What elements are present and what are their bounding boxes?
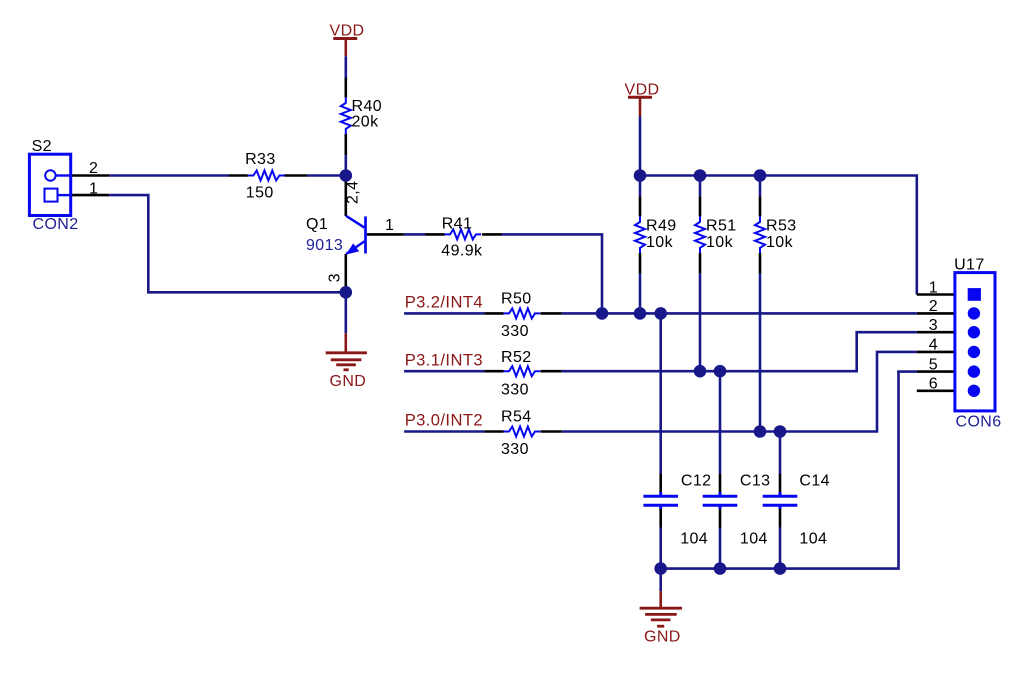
svg-text:GND: GND xyxy=(330,373,367,390)
svg-text:R41: R41 xyxy=(442,216,473,233)
svg-text:R49: R49 xyxy=(646,217,677,234)
svg-text:5: 5 xyxy=(929,356,938,373)
svg-text:1: 1 xyxy=(89,180,98,197)
svg-text:Q1: Q1 xyxy=(306,216,328,233)
svg-text:10k: 10k xyxy=(766,234,794,251)
svg-text:4: 4 xyxy=(929,337,938,354)
svg-text:104: 104 xyxy=(680,531,708,548)
svg-text:R53: R53 xyxy=(766,217,797,234)
svg-text:C12: C12 xyxy=(681,473,712,490)
svg-text:P3.2/INT4: P3.2/INT4 xyxy=(405,292,483,311)
svg-text:20k: 20k xyxy=(352,113,380,130)
svg-text:330: 330 xyxy=(501,441,529,458)
svg-text:R54: R54 xyxy=(501,408,532,425)
svg-text:VDD: VDD xyxy=(330,22,365,39)
svg-text:R52: R52 xyxy=(501,349,532,366)
svg-text:CON6: CON6 xyxy=(956,414,1002,431)
svg-text:2: 2 xyxy=(929,298,938,315)
svg-text:10k: 10k xyxy=(706,234,734,251)
svg-text:9013: 9013 xyxy=(306,237,343,254)
svg-text:104: 104 xyxy=(740,531,768,548)
svg-text:2: 2 xyxy=(89,160,98,177)
svg-text:104: 104 xyxy=(799,531,827,548)
svg-text:C14: C14 xyxy=(799,473,830,490)
svg-text:330: 330 xyxy=(501,381,529,398)
svg-text:10k: 10k xyxy=(646,234,674,251)
svg-text:1: 1 xyxy=(385,217,394,234)
svg-text:P3.0/INT2: P3.0/INT2 xyxy=(405,410,483,429)
svg-text:R40: R40 xyxy=(352,98,383,115)
svg-text:P3.1/INT3: P3.1/INT3 xyxy=(405,351,483,370)
svg-text:2,4: 2,4 xyxy=(345,181,362,204)
svg-text:S2: S2 xyxy=(32,138,52,155)
svg-text:R50: R50 xyxy=(501,290,532,307)
svg-text:CON2: CON2 xyxy=(33,216,79,233)
svg-text:6: 6 xyxy=(929,376,938,393)
svg-text:R51: R51 xyxy=(706,217,737,234)
svg-text:1: 1 xyxy=(929,279,938,296)
svg-text:3: 3 xyxy=(929,317,938,334)
svg-text:330: 330 xyxy=(501,323,529,340)
svg-text:GND: GND xyxy=(644,629,681,646)
svg-text:150: 150 xyxy=(246,185,274,202)
svg-text:49.9k: 49.9k xyxy=(441,243,483,260)
svg-text:VDD: VDD xyxy=(625,82,660,99)
svg-text:U17: U17 xyxy=(954,257,985,274)
svg-text:C13: C13 xyxy=(740,473,771,490)
svg-text:R33: R33 xyxy=(245,151,276,168)
svg-text:3: 3 xyxy=(327,273,344,282)
